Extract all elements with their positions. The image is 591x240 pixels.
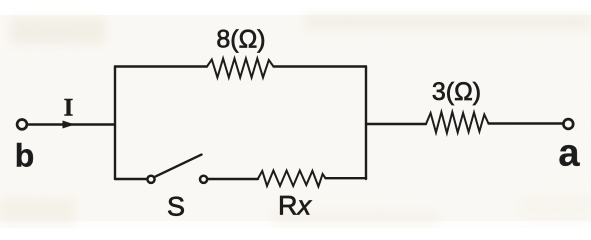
switch S open contact <box>200 176 207 183</box>
svg-text:3(Ω): 3(Ω) <box>432 78 481 106</box>
terminal a <box>563 119 573 129</box>
switch S pivot contact <box>147 176 154 183</box>
svg-text:a: a <box>558 133 580 175</box>
wire R3 to terminal a <box>489 122 563 124</box>
switch S lever <box>156 155 202 177</box>
resistor Rx <box>258 171 326 187</box>
top branch wire left <box>115 65 207 67</box>
resistor R 8(ohm) <box>207 59 274 78</box>
white margins top/bottom <box>0 0 591 15</box>
wire b to left node <box>29 123 115 125</box>
right vertical wire <box>365 67 367 180</box>
top branch wire right <box>274 65 367 67</box>
svg-text:S: S <box>167 192 185 222</box>
svg-text:8(Ω): 8(Ω) <box>216 26 265 54</box>
svg-text:b: b <box>15 138 35 174</box>
svg-text:Rx: Rx <box>278 191 313 221</box>
current arrow I <box>63 121 73 128</box>
terminal b <box>17 120 27 130</box>
resistor 3(ohm) <box>426 112 489 133</box>
left vertical wire <box>114 67 116 180</box>
bottom branch wire to switch <box>115 178 147 180</box>
wire switch to Rx <box>208 178 258 180</box>
svg-text:I: I <box>64 95 74 122</box>
bottom branch wire to right node <box>326 177 367 179</box>
main wire right node to R3 <box>366 123 426 125</box>
